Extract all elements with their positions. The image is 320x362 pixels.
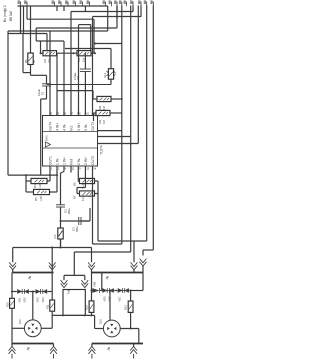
svg-text:R2: R2 <box>43 58 47 62</box>
wire x91.5 drop <box>91 248 93 263</box>
wire pin3 down <box>63 170 65 172</box>
bus line bottom left <box>12 343 54 345</box>
wire R11 bottom <box>51 311 53 315</box>
wire y250 <box>143 249 153 251</box>
svg-text:VD7: VD7 <box>118 296 122 302</box>
svg-text:DA1: DA1 <box>44 135 48 141</box>
node pin1 y175 <box>49 174 51 176</box>
svg-text:С1: С1 <box>53 234 57 238</box>
wire x47 drop to R2 <box>46 34 48 51</box>
wire R9 left <box>94 112 97 114</box>
capacitor C4 <box>78 217 80 225</box>
wire pin3 up <box>63 41 65 116</box>
wire bus2 x133.6 drop <box>133 344 135 347</box>
svg-text:Vcc: Vcc <box>70 125 74 131</box>
wire diode row2 right <box>129 290 143 292</box>
wire R13 bottom <box>130 312 132 328</box>
svg-text:ОUТ1: ОUТ1 <box>49 156 53 165</box>
wire tick drop x23.5 <box>23 6 25 34</box>
wire bus2 x91.9 drop <box>91 344 93 347</box>
wire R4 left lead <box>26 180 31 182</box>
wire X1 top lead <box>110 49 112 69</box>
resistor R12 <box>89 301 94 313</box>
wire y72.6 <box>23 72 31 74</box>
resistor R11 <box>50 300 55 311</box>
svg-text:Лк: Лк <box>107 346 111 350</box>
resistor R8 <box>97 96 111 101</box>
wire y75.3 <box>31 74 47 76</box>
wire stub x57 top <box>56 6 58 11</box>
connector chevron x52.2 <box>49 266 56 270</box>
wire y48.5 <box>65 48 111 50</box>
node R12 y315 <box>91 314 93 316</box>
resistor R5 <box>34 189 50 194</box>
wire rail y11.5 <box>71 11 133 13</box>
wire rail y19 <box>27 18 94 20</box>
svg-text:ВК 5к2: ВК 5к2 <box>9 11 13 21</box>
wire x12.7 drop <box>12 248 14 263</box>
diode VD5 VD6 pair <box>102 290 115 292</box>
wire stub x64 top <box>63 6 65 11</box>
wire bus2 x53.5 drop <box>53 344 55 347</box>
wire top vertical x121.8 <box>121 6 123 131</box>
wire y221 tail <box>81 220 90 222</box>
wire tick drop x133 <box>132 6 134 12</box>
svg-text:Лк: Лк <box>106 275 110 279</box>
wire return rail y31 <box>8 30 108 32</box>
svg-text:ОUТ4: ОUТ4 <box>49 122 53 131</box>
node diode row mid <box>32 291 34 293</box>
wire ringer1 left lead <box>12 327 25 329</box>
wire fuse col <box>11 273 13 299</box>
wire x52.2 to ringer <box>51 315 53 328</box>
wire top vertical x130.7 <box>130 6 132 137</box>
node x52.2 junction <box>51 247 53 249</box>
svg-text:Гр2: Гр2 <box>98 319 102 324</box>
wire top vertical x153.3 <box>152 6 154 251</box>
node x101.8 bus <box>101 272 103 274</box>
wire x138.8 drop <box>138 329 140 344</box>
svg-text:Гр1: Гр1 <box>18 319 22 324</box>
capacitor C4 <box>80 68 91 70</box>
connector chevron up x53.5 <box>50 346 57 350</box>
svg-text:VD2: VD2 <box>23 297 27 303</box>
wire right drop of top rail <box>107 6 109 31</box>
wire x101.8 col <box>101 273 103 291</box>
resistor R3 <box>77 51 91 56</box>
wire y175 rail <box>8 174 57 176</box>
wire C5 bottom lead <box>60 239 62 248</box>
svg-text:0,1мк: 0,1мк <box>37 89 41 96</box>
wire ringer2 right lead <box>120 328 139 330</box>
svg-text:2 IN+: 2 IN+ <box>84 157 88 165</box>
top edge connector ticks with pin labels <box>20 2 22 7</box>
node box left bottom <box>62 314 64 316</box>
wire y99 <box>41 98 47 100</box>
svg-text:1,3М: 1,3М <box>39 183 42 188</box>
wire x143 drop <box>142 250 144 256</box>
wire chev x143 <box>142 266 144 273</box>
node junction R8 <box>121 98 123 100</box>
wire R4 right lead <box>47 180 50 182</box>
wire x90.7 drop <box>90 25 92 51</box>
wire tick drop x117 <box>116 6 118 29</box>
svg-text:С3: С3 <box>72 227 76 231</box>
ringer BF2 ГР2 <box>103 320 120 337</box>
wire y33 stub <box>8 33 47 35</box>
wire ringer1 top lead <box>32 292 34 321</box>
wire X1 bottom lead <box>110 79 112 84</box>
diode VD3 VD4 pair <box>35 291 48 293</box>
node chain junction <box>60 247 62 249</box>
svg-text:390н: 390н <box>76 226 79 232</box>
svg-text:ОUТ3: ОUТ3 <box>91 122 95 131</box>
wire diode row right <box>48 291 53 293</box>
wire x74.3 tbar drop <box>73 252 75 275</box>
wire R5 left lead <box>26 191 34 193</box>
wire x94.6 drop <box>94 315 96 328</box>
wire rail y16.5 <box>93 16 142 18</box>
wire diode row left <box>12 291 17 293</box>
wire rail y28 <box>36 27 117 29</box>
ringer BF1 ГР1 <box>24 320 41 337</box>
connector chevron handset left <box>61 283 68 287</box>
node diode row2 mid <box>109 290 111 292</box>
bus line Lk left <box>13 272 54 274</box>
capacitor C3 <box>56 204 65 206</box>
wire chev x134 <box>133 270 135 273</box>
svg-text:R4: R4 <box>33 184 37 188</box>
svg-text:С2: С2 <box>64 209 68 213</box>
wire y221 right <box>61 220 91 222</box>
wire chev x12.7 <box>12 270 14 273</box>
svg-text:VD1: VD1 <box>18 297 22 303</box>
svg-text:VD5: VD5 <box>103 296 107 302</box>
wire R2 left lead <box>41 52 44 54</box>
connector chevron up x12 <box>9 346 16 350</box>
wire x36 drop <box>35 28 37 41</box>
wire pin5 down <box>77 170 79 182</box>
wire stub x85.4 top <box>84 6 86 11</box>
resistor R4 <box>31 178 47 183</box>
connector chevron x12.7 <box>9 266 16 270</box>
wire R8 left up <box>93 98 97 100</box>
wire C4 bottom lead pin6 <box>84 72 86 116</box>
node VD9 left <box>91 290 93 292</box>
wire diode row mid <box>29 291 35 293</box>
wire pin6 down <box>84 170 86 188</box>
wire pin4 down <box>70 170 72 173</box>
wire x98 drop <box>97 181 99 241</box>
svg-text:1 IN+: 1 IN+ <box>63 157 67 165</box>
svg-text:1М: 1М <box>102 120 106 124</box>
wire x52.2 drop <box>51 248 53 273</box>
wire rail y41 <box>36 40 64 42</box>
wire x40.5 drop <box>40 41 42 53</box>
connector chevron up x133.6 <box>130 346 137 350</box>
wire pin1 down <box>49 170 51 181</box>
svg-text:Вх (тлф) 2: Вх (тлф) 2 <box>3 5 7 22</box>
wire left long drop x8 <box>7 31 9 175</box>
connector chevron x143 <box>140 262 147 266</box>
wire x121.8 drop <box>121 131 123 244</box>
wire tick drop x27 <box>26 6 28 20</box>
wire y315.4 rail <box>52 314 94 316</box>
wire x94 drop <box>93 19 95 53</box>
wire R5 right lead <box>50 191 58 193</box>
diode VD1 VD2 pair <box>17 291 30 293</box>
svg-text:Лк: Лк <box>28 275 32 279</box>
wire VD9 leads <box>91 290 94 292</box>
node junction y43.5 <box>94 43 96 45</box>
resistor R1 <box>28 53 33 65</box>
connector chevron x134 <box>131 266 138 270</box>
wire ringer2 top lead <box>109 291 111 321</box>
node junction x40.5 <box>40 52 42 54</box>
wire y244 <box>93 243 122 245</box>
wire chev x91.5 <box>91 270 93 273</box>
wire pin2 down <box>56 170 58 192</box>
wire pin5 up <box>78 25 80 116</box>
node junction R3 left <box>73 52 75 54</box>
wire y43.5 to right <box>95 43 122 45</box>
svg-text:VD3: VD3 <box>36 297 40 303</box>
microtelephone box BA1 <box>63 290 85 316</box>
svg-text:VD4: VD4 <box>41 297 45 303</box>
wire C4 top lead <box>84 53 86 69</box>
wire R12 bottom <box>91 312 93 315</box>
wire x52.2 col <box>51 273 53 301</box>
wire tbar left drop <box>63 275 65 280</box>
wire y84.5 left <box>47 84 112 86</box>
node diode row left <box>11 291 13 293</box>
bus line bottom right <box>92 343 143 345</box>
resistor R7 <box>80 191 95 196</box>
wire top rail <box>18 5 108 7</box>
svg-text:Лк: Лк <box>27 346 31 350</box>
svg-text:R11: R11 <box>46 304 50 309</box>
wire pin1 up <box>49 31 51 116</box>
wire R1 top lead <box>30 6 32 54</box>
svg-text:R6: R6 <box>73 182 77 186</box>
wire pin4 up Vcc <box>70 12 72 116</box>
svg-text:R13: R13 <box>124 305 128 310</box>
connector chevron up x91.9 <box>89 346 96 350</box>
svg-text:VD8: VD8 <box>93 281 97 287</box>
wire bus2 left end drop <box>11 344 13 347</box>
svg-text:R12: R12 <box>85 305 89 310</box>
wire tick drop x20.5 <box>20 6 22 34</box>
wire C3 bottom <box>60 207 62 248</box>
wire out2 step right <box>98 136 131 138</box>
wire x130.7 drop <box>130 137 132 253</box>
wire y241 <box>98 240 147 242</box>
node y221 junction <box>60 220 62 222</box>
wire ringer1 right lead <box>41 327 52 329</box>
wire top vertical x146.7 <box>146 6 148 242</box>
wire x23 drop <box>22 34 24 73</box>
op-amp U1 DA1 TL074 <box>43 116 98 167</box>
resistor R2 <box>43 51 57 56</box>
resistor R13 <box>128 301 133 312</box>
wire R9 right lead <box>110 112 122 114</box>
IC pin stubs and pin numbers <box>49 112 51 116</box>
node x26 y175 <box>25 174 27 176</box>
svg-text:R8: R8 <box>98 105 102 109</box>
wire R7 right lead <box>95 193 99 195</box>
wire R1 bottom lead <box>30 65 32 76</box>
svg-text:R5: R5 <box>34 197 38 201</box>
connector chevron x91.5 <box>88 266 95 270</box>
svg-text:1 IN-: 1 IN- <box>56 158 60 165</box>
svg-text:R10: R10 <box>6 302 10 307</box>
svg-text:R1: R1 <box>24 59 28 63</box>
wire tbar right drop <box>84 275 86 280</box>
wire x134 drop <box>133 241 135 262</box>
connector chevron handset right <box>81 283 88 287</box>
wire y143.5 step <box>98 143 139 145</box>
wire pin7 down <box>92 170 94 244</box>
svg-text:С1: С1 <box>41 91 45 95</box>
polar capacitor C5 <box>58 228 63 239</box>
node R13 junction <box>130 328 132 330</box>
svg-text:R7: R7 <box>73 195 77 199</box>
svg-text:ОUТ2: ОUТ2 <box>91 156 95 165</box>
svg-text:HL1: HL1 <box>103 72 107 78</box>
svg-text:390н: 390н <box>68 208 71 214</box>
wire fuse bottom <box>11 308 13 343</box>
svg-text:4 IN-: 4 IN- <box>63 124 67 131</box>
wire rail y24.6 <box>79 24 91 26</box>
wire C1 top lead <box>46 75 48 84</box>
svg-text:4 IN+: 4 IN+ <box>56 123 60 131</box>
svg-text:1М: 1М <box>102 106 106 110</box>
wire x143 col <box>142 273 144 291</box>
bus line Lk right <box>92 272 144 274</box>
wire tbar <box>64 274 85 276</box>
svg-text:1,3М: 1,3М <box>40 196 43 201</box>
node junction R3 right <box>94 52 96 54</box>
wire R8 right lead <box>111 98 122 100</box>
node box right bottom <box>84 314 86 316</box>
svg-text:Vref: Vref <box>70 159 74 165</box>
svg-text:3 IN+: 3 IN+ <box>77 123 81 131</box>
lamp HL1 <box>108 69 113 80</box>
resistor R6 <box>80 178 95 183</box>
wire tick drop x141 <box>140 6 142 17</box>
wire y90.6 <box>57 90 93 92</box>
wire R2-R3 link <box>57 52 78 54</box>
svg-text:0,15мк: 0,15мк <box>74 72 77 80</box>
wire x26 drop <box>25 175 27 192</box>
capacitor C1 <box>42 83 51 85</box>
wire pin2 upper <box>56 53 58 115</box>
wire x40.7 drop to rail <box>40 99 42 175</box>
diode VD9 <box>92 288 99 293</box>
wire pin7 up <box>92 17 94 116</box>
node pin2 y175 <box>56 174 58 176</box>
wire y247.5 rail <box>13 247 92 249</box>
wire R3 right lead <box>91 52 95 54</box>
wire tick drop x117 <box>116 6 118 20</box>
svg-text:5,1М: 5,1М <box>82 196 85 201</box>
diode VD7 VD8 pair <box>117 290 129 292</box>
wire x91.5 below bus <box>91 273 93 301</box>
wire C1 bottom lead <box>46 86 48 99</box>
wire diode row2 mid <box>114 290 117 292</box>
wire top vertical x138.3 <box>137 6 139 144</box>
svg-text:R9: R9 <box>98 119 102 123</box>
svg-text:TL074: TL074 <box>100 145 104 154</box>
svg-text:Тлф: Тлф <box>67 288 71 294</box>
wire y252 from x130.7 <box>74 251 130 253</box>
wire out1 step right <box>98 130 122 132</box>
svg-text:2 IN-: 2 IN- <box>77 158 81 165</box>
svg-text:3 IN-: 3 IN- <box>84 124 88 131</box>
wire R6 right lead <box>95 180 99 182</box>
node x130.6 <box>130 290 132 292</box>
wire ringer2 left lead <box>95 328 104 330</box>
resistor R9 <box>96 110 110 115</box>
fuse FU1 <box>10 298 15 308</box>
wire R13 col <box>130 291 132 302</box>
